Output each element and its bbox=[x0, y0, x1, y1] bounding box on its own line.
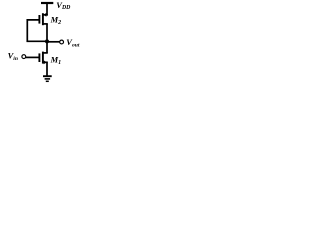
wire VDD to M2 source bbox=[46, 3, 48, 16]
ground bbox=[43, 76, 52, 81]
svg-text:VDD: VDD bbox=[56, 0, 71, 11]
terminal Vin circle bbox=[22, 55, 26, 59]
svg-text:M1: M1 bbox=[50, 54, 62, 66]
wire M1 source to ground bbox=[46, 62, 48, 76]
wire Vout tap bbox=[47, 41, 60, 43]
power VDD bar bbox=[41, 2, 53, 4]
wire M2 gate loop to output node bbox=[27, 20, 47, 41]
wire M2 drain down to M1 drain bbox=[46, 24, 48, 53]
svg-text:Vin: Vin bbox=[8, 50, 18, 61]
transistor M1 (NMOS driver) bbox=[39, 52, 47, 65]
node Vout junction dot bbox=[45, 39, 49, 43]
svg-text:M2: M2 bbox=[50, 14, 62, 26]
wire Vin to M1 gate bbox=[26, 56, 39, 58]
svg-text:Vout: Vout bbox=[66, 37, 80, 49]
transistor M2 (PMOS, diode-connected load) bbox=[39, 13, 47, 25]
terminal Vout circle bbox=[60, 40, 64, 44]
